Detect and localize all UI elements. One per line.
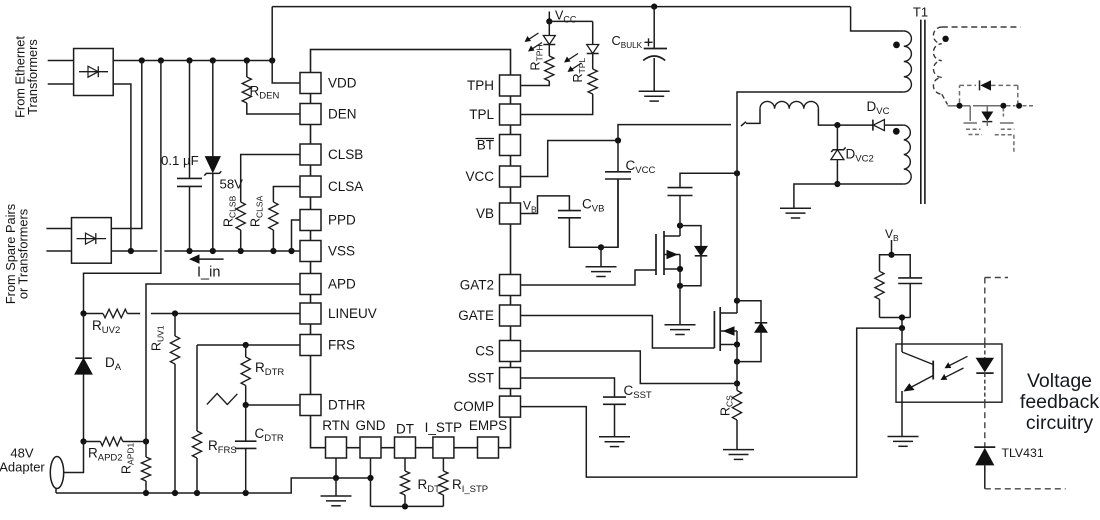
ground under RTN (321, 478, 352, 506)
transistor sync rect 1 (dashed) (964, 106, 983, 135)
label T1 (913, 5, 928, 20)
node DVC2 top junction (834, 122, 840, 128)
ground under optocoupler (888, 437, 919, 447)
wire secondary top lead (dashed) (942, 26, 1021, 28)
wire VB pin to CVB (521, 196, 569, 214)
ground under CBULK (639, 91, 670, 101)
node clamp source junction (677, 266, 683, 272)
wire PPD to VSS (292, 220, 301, 251)
label TLV431 (1002, 446, 1044, 460)
transistor sync rect 2 (dashed) (995, 109, 1015, 155)
LED arrows TPL (564, 54, 582, 73)
IC left pin labels (328, 76, 377, 413)
svg-text:T1: T1 (913, 5, 928, 20)
capacitor 0.1uF (177, 61, 202, 252)
resistor RCS (732, 384, 741, 450)
wire RC bottom (880, 318, 911, 329)
inductor (VCC feed) (760, 101, 837, 125)
label VB node (feedback) (885, 227, 899, 243)
LED on TPH branch (543, 21, 555, 44)
transformer core (921, 20, 925, 204)
wire DTHR net (246, 404, 300, 406)
node RUV2/DA junction (80, 310, 86, 316)
svg-text:Adapter: Adapter (0, 460, 45, 475)
label RCLSA (249, 195, 265, 227)
node VSS rail junctions (128, 248, 295, 254)
wire VSS rail (111, 250, 300, 252)
ground under clamp source (665, 286, 696, 335)
wire sync rect dashes right (1007, 105, 1035, 107)
node RAPD1 top junction (143, 438, 149, 444)
svg-text:CLSB: CLSB (328, 147, 363, 162)
symbol sawtooth waveform (207, 394, 238, 405)
diode body (parallel with Q1) (737, 301, 767, 362)
svg-text:TLV431: TLV431 (1002, 446, 1044, 460)
wire GAT2 to clamp gate (521, 270, 656, 285)
wire input rail (bridge1 +) (113, 60, 272, 62)
svg-text:SST: SST (468, 371, 494, 386)
wire VCC node to inductor (with hop) (618, 109, 760, 141)
wire primary bottom to Q1 drain (737, 92, 904, 173)
node aux polarity dot (893, 128, 900, 135)
label 58V (220, 177, 244, 192)
svg-text:VB: VB (476, 206, 494, 221)
node aux bottom junction (834, 181, 840, 187)
capacitor CVB (558, 211, 601, 248)
label RUV1 (150, 325, 166, 351)
label CSST (624, 383, 652, 401)
diode clamp (parallel with Q2) (680, 226, 707, 286)
wire top rail to primary (851, 7, 904, 31)
node RUV1 top junction (172, 310, 178, 316)
label CVCC (626, 158, 656, 176)
label CVB (582, 197, 604, 215)
IC bottom pin labels (322, 418, 507, 437)
resistor RCLSB (236, 155, 300, 252)
label CDTR (255, 426, 284, 444)
transformer auxiliary winding (904, 125, 911, 184)
label DVC (867, 99, 890, 117)
resistor RDTR (241, 345, 250, 405)
node clamp drain junction (677, 223, 683, 229)
resistor RTPL (521, 54, 597, 115)
node primary/drain branch junction (734, 170, 740, 176)
label RCS (719, 395, 735, 416)
label 0.1uF (161, 153, 199, 168)
node RDT bottom junction (402, 503, 408, 509)
resistor RAPD1 (141, 442, 150, 494)
zener diode DVC2 (831, 125, 846, 184)
svg-text:I_in: I_in (197, 265, 220, 281)
node Q1 source junction (734, 341, 740, 347)
label RTPH (529, 44, 545, 70)
wire top rail riser to VDD (272, 7, 300, 83)
capacitor CSST (603, 397, 626, 437)
diode sync top (freewheel) (960, 80, 1018, 103)
label CBULK (612, 33, 643, 50)
svg-text:0.1 µF: 0.1 µF (161, 153, 199, 168)
IC right pin labels (454, 78, 495, 414)
shunt regulator TLV431 (974, 447, 995, 489)
svg-text:GND: GND (356, 418, 386, 433)
svg-text:FRS: FRS (328, 338, 355, 353)
wire feedback dashed top (985, 278, 1008, 345)
wire CVCC bottom to ground node (601, 179, 618, 247)
transformer primary winding (904, 31, 912, 92)
resistor RUV1 (170, 314, 179, 494)
svg-text:CS: CS (475, 344, 494, 359)
label RDTR (255, 360, 284, 378)
svg-text:48V: 48V (10, 446, 33, 461)
node Q1 drain junction (734, 298, 740, 304)
node DTHR junction (243, 402, 249, 408)
svg-text:VSS: VSS (328, 244, 355, 259)
wire secondary bottom lead (dashed) (942, 94, 948, 104)
svg-text:TPL: TPL (469, 107, 494, 122)
wire ethernet bridge inputs (48, 61, 74, 85)
zener diode 58V (204, 61, 221, 252)
node Q1 diode bottom junction (734, 359, 740, 365)
wire FRS net (197, 344, 300, 346)
svg-text:GAT2: GAT2 (460, 278, 494, 293)
node CBULK junction (651, 4, 657, 10)
wire top positive rail (272, 6, 850, 8)
svg-text:LINEUV: LINEUV (328, 306, 377, 321)
node input rail junctions (139, 57, 276, 63)
svg-text:I_STP: I_STP (425, 420, 463, 435)
label I_in (197, 265, 220, 281)
label DA (105, 355, 122, 373)
arrow I_in (189, 254, 224, 263)
ground under aux winding (780, 208, 811, 218)
wire bridge2 upper output to input rail (111, 61, 142, 229)
node primary polarity dot (893, 42, 900, 49)
optocoupler light arrows (941, 356, 968, 380)
diode bridge (spare pairs) (72, 218, 112, 264)
resistor RDT (400, 458, 409, 506)
node clamp diode bottom junction (677, 283, 683, 289)
node secondary polarity dot (942, 36, 948, 42)
svg-text:RTN: RTN (322, 418, 350, 433)
wire CS pin to CS node (521, 351, 737, 384)
label Voltage feedback circuitry (1020, 370, 1099, 434)
LED on TPL branch (587, 21, 599, 53)
svg-text:feedback: feedback (1020, 391, 1099, 413)
node CVB/CVCC ground junction (598, 244, 604, 250)
capacitor clamp (snubber) (668, 173, 738, 225)
node RDTR top junction (243, 342, 249, 348)
wire COMP to optocoupler (521, 328, 902, 477)
wire aux winding bottom rail (794, 184, 904, 208)
wire GATE to Q1 gate (521, 316, 714, 349)
svg-text:PPD: PPD (328, 213, 356, 228)
resistor RISTP (439, 458, 448, 506)
svg-text:circuitry: circuitry (1026, 412, 1093, 434)
label RDT (418, 477, 441, 495)
svg-text:GATE: GATE (458, 308, 494, 323)
resistor RTPH (521, 45, 554, 86)
label RDEN (250, 84, 280, 102)
svg-text:Transformers: Transformers (25, 39, 40, 115)
LED arrows TPH (525, 33, 543, 52)
diode sync middle (973, 106, 1001, 126)
svg-text:DTHR: DTHR (328, 398, 366, 413)
label DVC2 (846, 147, 874, 165)
label VB node (near pin) (523, 199, 537, 215)
svg-text:Voltage: Voltage (1027, 370, 1092, 392)
svg-text:DT: DT (396, 422, 414, 437)
capacitor CDTR (235, 405, 257, 493)
optocoupler LED (976, 344, 994, 402)
svg-text:DEN: DEN (328, 107, 357, 122)
wire feedback dashed bottom (985, 488, 1066, 490)
svg-text:VDD: VDD (328, 76, 357, 91)
wire bottom-left return rail (56, 478, 371, 493)
wire Q1 drain to transformer (736, 173, 738, 300)
label RAPD2 (88, 446, 123, 464)
resistor RUV2 (103, 309, 127, 318)
node return rail junctions (143, 490, 249, 496)
label RUV2 (92, 318, 120, 336)
ground under CVB node (586, 247, 617, 276)
wire GND bottom rail (371, 505, 444, 507)
svg-text:VCC: VCC (465, 169, 494, 184)
node CS junction (734, 380, 740, 386)
label RCLSB (222, 195, 238, 227)
svg-text:BT: BT (477, 138, 494, 153)
node opto collector junction (899, 325, 905, 331)
resistor RCLSA (269, 187, 300, 252)
node VCC tick (546, 12, 552, 25)
IC pin boxes (300, 73, 521, 459)
wire spare bridge inputs (46, 229, 71, 252)
resistor VB divider (parallel R) (875, 255, 892, 318)
wire APD net riser (146, 284, 300, 442)
svg-text:APD: APD (328, 277, 356, 292)
diode DVC (837, 120, 903, 131)
resistor RDEN (242, 61, 300, 115)
label 48V Adapter (0, 446, 45, 475)
node CVCC junction (615, 137, 621, 143)
wire SST to CSST (521, 378, 615, 397)
transistor Q2 (clamp p-FET) (656, 226, 680, 286)
optocoupler U2 box (896, 344, 1002, 402)
label RISTP (452, 477, 488, 495)
svg-text:TPH: TPH (467, 78, 494, 93)
connector 48V adapter (50, 442, 83, 494)
wire VCC to RTPL branch (549, 20, 592, 22)
label From Ethernet Transformers (13, 36, 41, 118)
label RAPD1 (120, 442, 136, 474)
wire rail drop to RUV2/DA node (crosses VSS rail) (84, 61, 161, 314)
capacitor VB divider (parallel C) (892, 255, 923, 318)
svg-text:EMPS: EMPS (469, 418, 507, 433)
label RFRS (208, 438, 237, 456)
node RAPD2 left junction (80, 438, 86, 444)
node sync rect mid (1000, 103, 1006, 109)
transformer secondary winding (dashed) (933, 27, 941, 94)
label RTPL (571, 58, 587, 83)
wire sync rectifier node (948, 105, 971, 107)
svg-text:COMP: COMP (454, 399, 495, 414)
optocoupler phototransistor (902, 328, 933, 436)
wire RTN to ground rail (333, 458, 339, 481)
wire VB node stub (888, 240, 894, 258)
svg-text:or Transformers: or Transformers (16, 209, 31, 299)
wire GND pin down (367, 458, 373, 506)
node sync rect right (1016, 103, 1022, 109)
wire LED cathode to TLV431 (984, 402, 986, 447)
wire LINEUV net (RUV2 row) (84, 313, 301, 315)
svg-text:58V: 58V (220, 177, 244, 192)
transistor Q1 (main switch n-FET) (714, 301, 737, 351)
IC outline U1 (311, 50, 511, 448)
ground under CSST (599, 437, 630, 447)
wire Q1 source to CS node (736, 345, 738, 384)
wire bridge1 lower output to VSS rail (113, 84, 131, 251)
resistor RFRS (192, 345, 201, 493)
capacitor CBULK (polarized) (643, 7, 667, 92)
label From Spare Pairs or Transformers (3, 204, 31, 304)
resistor RAPD2 (84, 437, 147, 446)
ground under RCS (723, 450, 754, 460)
wire VCC pin to CVCC node (521, 141, 618, 177)
diode bridge (Ethernet pairs) (74, 49, 114, 96)
node sync rect left (957, 103, 963, 109)
diode DA (75, 314, 92, 442)
label VCC (555, 9, 577, 25)
capacitor CVCC (605, 141, 631, 248)
node RC bottom junction (899, 314, 905, 320)
svg-text:CLSA: CLSA (328, 179, 363, 194)
